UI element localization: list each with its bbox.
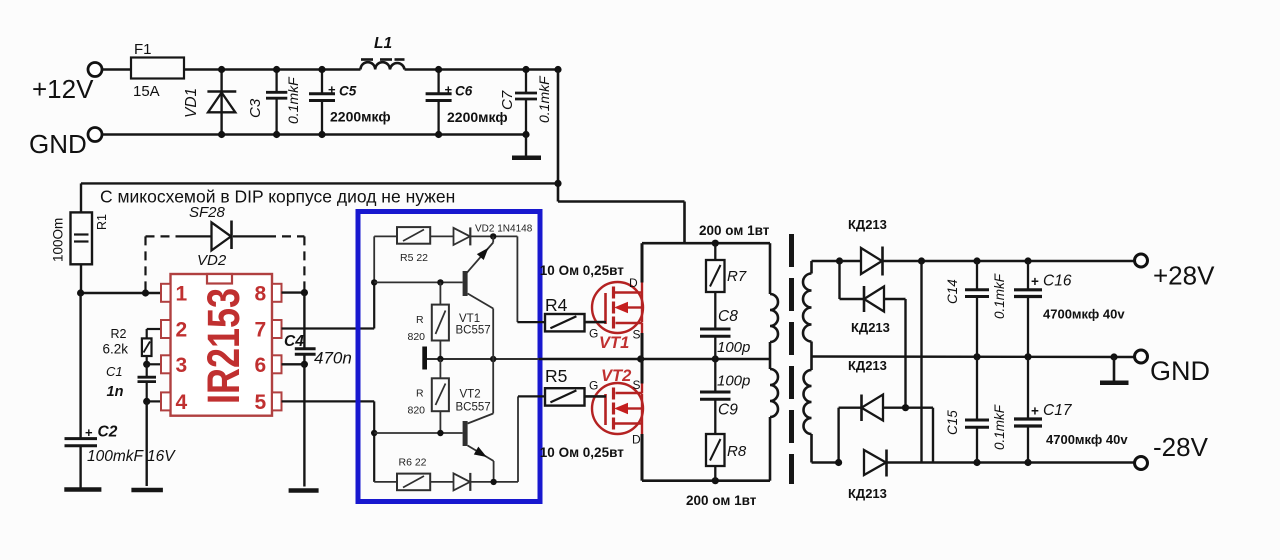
svg-text:1n: 1n <box>107 384 124 400</box>
op-amp U1 IR2153 DIP-8 <box>161 274 282 416</box>
resistor R4 <box>545 295 606 331</box>
svg-text:F1: F1 <box>134 41 152 58</box>
svg-text:100mkF 16V: 100mkF 16V <box>87 448 176 465</box>
transformer secondary center tap <box>810 342 813 371</box>
svg-text:+28V: +28V <box>1153 261 1215 291</box>
node pin3 junction <box>143 361 161 368</box>
svg-text:7: 7 <box>255 319 267 342</box>
svg-text:5: 5 <box>255 391 267 414</box>
wire bottom row in box <box>374 481 397 483</box>
wire top row in box <box>371 236 397 285</box>
svg-text:C15: C15 <box>945 410 960 435</box>
capacitor C3 <box>247 66 301 138</box>
transistor VT1 MOSFET <box>585 243 644 359</box>
svg-text:GND: GND <box>1150 356 1210 386</box>
svg-text:470n: 470n <box>314 349 352 368</box>
svg-text:VD2 1N4148: VD2 1N4148 <box>475 224 533 235</box>
capacitor C2 100mkF 16V <box>65 424 177 466</box>
svg-text:R: R <box>416 388 424 400</box>
svg-text:0.1mkF: 0.1mkF <box>536 75 552 123</box>
terminal -28V <box>1135 432 1209 470</box>
wire plus rail <box>918 257 1134 264</box>
svg-text:100p: 100p <box>717 339 750 356</box>
svg-text:R8: R8 <box>727 443 747 460</box>
transformer secondary top winding <box>803 261 840 342</box>
capacitor C7 <box>499 66 552 138</box>
svg-text:100p: 100p <box>717 373 750 390</box>
svg-text:200 ом 1вт: 200 ом 1вт <box>686 493 757 508</box>
wire supply drop <box>554 66 684 243</box>
svg-text:C14: C14 <box>945 279 960 304</box>
diode KD213 D2 <box>851 286 906 408</box>
resistor R6 22 <box>397 457 454 491</box>
svg-text:IR2153: IR2153 <box>198 288 249 404</box>
diode VD2 1N4148 <box>454 224 533 246</box>
svg-text:+: + <box>1031 274 1039 289</box>
resistor R7 <box>706 243 747 329</box>
diode KD213 D3 <box>848 358 909 421</box>
svg-text:200 ом 1вт: 200 ом 1вт <box>699 223 770 238</box>
svg-text:КД213: КД213 <box>848 358 887 373</box>
svg-text:6: 6 <box>255 354 267 377</box>
wire cross vertical <box>920 261 922 463</box>
ground after C7 <box>512 135 541 158</box>
svg-text:+: + <box>85 425 93 440</box>
capacitor C1 1n <box>106 364 156 401</box>
capacitor C4 470n <box>284 293 352 368</box>
resistor R820 lower <box>408 359 449 433</box>
svg-text:C17: C17 <box>1043 402 1073 419</box>
svg-text:100Om: 100Om <box>51 218 66 262</box>
note text DIP <box>100 187 455 207</box>
diode KD213 D1 <box>848 217 922 276</box>
transformer primary top winding <box>770 243 778 342</box>
svg-text:GND: GND <box>29 129 87 159</box>
svg-text:10 Ом 0,25вт: 10 Ом 0,25вт <box>540 263 624 278</box>
svg-text:10 Ом 0,25вт: 10 Ом 0,25вт <box>540 445 624 460</box>
svg-text:КД213: КД213 <box>851 320 890 335</box>
transistor VT2 BC557 <box>456 389 494 483</box>
resistor R5 gate <box>545 366 606 406</box>
capacitor C8 100p <box>700 308 750 359</box>
svg-text:+: + <box>445 82 453 97</box>
ground below C1 column <box>131 401 163 490</box>
svg-text:4700мкф 40v: 4700мкф 40v <box>1046 432 1128 447</box>
svg-text:C1: C1 <box>106 364 123 379</box>
resistor R8 <box>706 434 747 481</box>
svg-text:L1: L1 <box>374 35 392 52</box>
dashed bypass outline <box>146 236 305 293</box>
ground below C2 <box>64 446 101 490</box>
wire minus rail <box>933 459 1134 466</box>
transformer primary bottom winding <box>770 369 778 481</box>
svg-text:C16: C16 <box>1043 273 1072 290</box>
capacitor C5 2200mkf <box>309 66 391 138</box>
svg-text:S: S <box>633 328 641 342</box>
svg-text:4: 4 <box>176 391 188 414</box>
capacitor C14 <box>945 261 1007 357</box>
svg-text:C4: C4 <box>284 333 304 350</box>
wire gnd rail out <box>812 353 1135 360</box>
svg-text:VT1: VT1 <box>599 334 629 352</box>
diode lower 1N4148 <box>454 473 519 491</box>
svg-text:R7: R7 <box>727 268 747 285</box>
svg-text:8: 8 <box>255 282 267 305</box>
svg-text:SF28: SF28 <box>189 204 226 221</box>
common bar node <box>422 347 427 370</box>
wire minus node jog <box>906 408 934 463</box>
terminal GND output <box>1135 350 1211 386</box>
diode VD2 SF28 <box>180 204 267 269</box>
svg-text:R6 22: R6 22 <box>399 457 427 469</box>
svg-text:R5: R5 <box>545 366 567 386</box>
wire GND rail <box>102 133 526 136</box>
svg-text:+12V: +12V <box>32 74 94 104</box>
terminal +12V input <box>32 63 102 105</box>
svg-text:D: D <box>629 276 638 290</box>
wire +12V feed to R1 and IC <box>81 182 558 184</box>
transformer core <box>789 234 794 484</box>
svg-text:C9: C9 <box>718 402 738 419</box>
capacitor C9 100p <box>700 359 750 434</box>
svg-text:R: R <box>416 314 424 326</box>
capacitor C6 2200mkf <box>426 66 508 138</box>
svg-text:3: 3 <box>176 354 188 377</box>
wire VT1 VT2 output vertical <box>492 309 494 414</box>
transformer primary center tap <box>769 342 772 369</box>
inductor L1 <box>361 35 405 70</box>
svg-text:0.1mkF: 0.1mkF <box>285 76 301 124</box>
svg-text:VD1: VD1 <box>183 88 200 118</box>
svg-text:R5 22: R5 22 <box>400 252 428 264</box>
svg-text:0.1mkF: 0.1mkF <box>992 404 1007 450</box>
label 10 Om bottom <box>540 445 624 460</box>
wire R5 tap <box>518 396 545 482</box>
wire VT1 base row <box>374 279 462 285</box>
capacitor C16 4700mkf <box>1014 261 1125 357</box>
svg-text:C2: C2 <box>98 424 118 441</box>
svg-text:4700мкф 40v: 4700мкф 40v <box>1043 307 1125 322</box>
resistor R820 upper <box>408 282 449 359</box>
svg-text:VT2: VT2 <box>460 389 481 401</box>
transformer secondary bottom winding <box>804 370 839 463</box>
svg-text:C5: C5 <box>339 84 357 99</box>
ground below C4 column <box>289 364 319 490</box>
wire R1 to C2 <box>79 293 81 439</box>
svg-text:VT1: VT1 <box>459 313 480 325</box>
wire pin8 row <box>282 289 309 296</box>
node pin4 junction <box>143 398 161 405</box>
svg-text:G: G <box>589 327 598 341</box>
svg-text:C6: C6 <box>455 84 473 99</box>
svg-text:VT2: VT2 <box>601 367 631 385</box>
node pin6 junction <box>282 361 309 368</box>
svg-text:2200мкф: 2200мкф <box>447 109 508 125</box>
svg-text:2: 2 <box>176 319 188 342</box>
resistor R1 100Om <box>51 183 110 293</box>
capacitor C15 <box>945 357 1007 463</box>
wire VT2 base row <box>374 430 462 436</box>
driver block outline <box>358 212 540 502</box>
wire pin1 row <box>77 289 161 296</box>
wire pin7 row <box>282 282 375 328</box>
wire D2 branch <box>840 261 865 299</box>
diode KD213 D4 <box>848 450 933 502</box>
svg-text:КД213: КД213 <box>848 217 887 232</box>
fuse F1 <box>131 41 184 100</box>
label 200om top <box>699 223 770 238</box>
svg-text:КД213: КД213 <box>848 486 887 501</box>
svg-text:1: 1 <box>176 282 188 305</box>
wire drive rail top <box>642 240 770 247</box>
svg-text:+: + <box>328 82 336 97</box>
svg-text:С микосхемой в DIP корпусе дио: С микосхемой в DIP корпусе диод не нужен <box>100 187 455 207</box>
svg-text:R1: R1 <box>95 214 109 230</box>
svg-text:+: + <box>1031 404 1039 419</box>
resistor R5 22 <box>397 227 454 264</box>
svg-text:6.2k: 6.2k <box>103 342 129 357</box>
svg-text:C8: C8 <box>718 308 738 325</box>
terminal +28V <box>1135 254 1216 291</box>
svg-text:-28V: -28V <box>1153 432 1209 462</box>
label 200om bottom <box>686 493 757 508</box>
terminal GND input <box>29 128 102 160</box>
svg-text:C3: C3 <box>247 98 264 118</box>
svg-text:0.1mkF: 0.1mkF <box>992 273 1007 319</box>
transistor VT1 BC557 <box>456 236 494 336</box>
ground at GND output <box>1100 353 1129 382</box>
capacitor C17 4700mkf <box>1014 357 1128 463</box>
wire D3 branch <box>835 408 862 466</box>
wire R4 tap <box>517 236 545 322</box>
wire mid source rail <box>427 355 770 362</box>
svg-text:BC557: BC557 <box>456 325 491 337</box>
label 10 Om top <box>540 263 624 278</box>
svg-text:G: G <box>589 379 598 393</box>
resistor R2 6.2k <box>103 327 162 364</box>
svg-text:R4: R4 <box>545 295 568 315</box>
svg-text:2200мкф: 2200мкф <box>330 109 391 125</box>
svg-text:15A: 15A <box>133 83 160 100</box>
svg-text:BC557: BC557 <box>456 402 491 414</box>
svg-text:820: 820 <box>408 405 426 417</box>
wire secondary top node <box>836 257 861 264</box>
diode VD1 <box>183 66 236 138</box>
transistor VT2 MOSFET <box>585 359 644 481</box>
svg-text:C7: C7 <box>499 90 516 110</box>
wire +12V rail segment B <box>184 68 361 71</box>
svg-text:820: 820 <box>408 331 426 343</box>
svg-text:S: S <box>633 378 641 392</box>
svg-text:D: D <box>632 433 641 447</box>
wire +12V rail segment A <box>102 68 131 71</box>
svg-text:R2: R2 <box>111 327 127 341</box>
wire drive rail bottom <box>642 477 770 484</box>
svg-text:VD2: VD2 <box>197 252 227 269</box>
wire pin5 row <box>282 401 378 482</box>
wire +12V rail segment C <box>405 68 559 71</box>
